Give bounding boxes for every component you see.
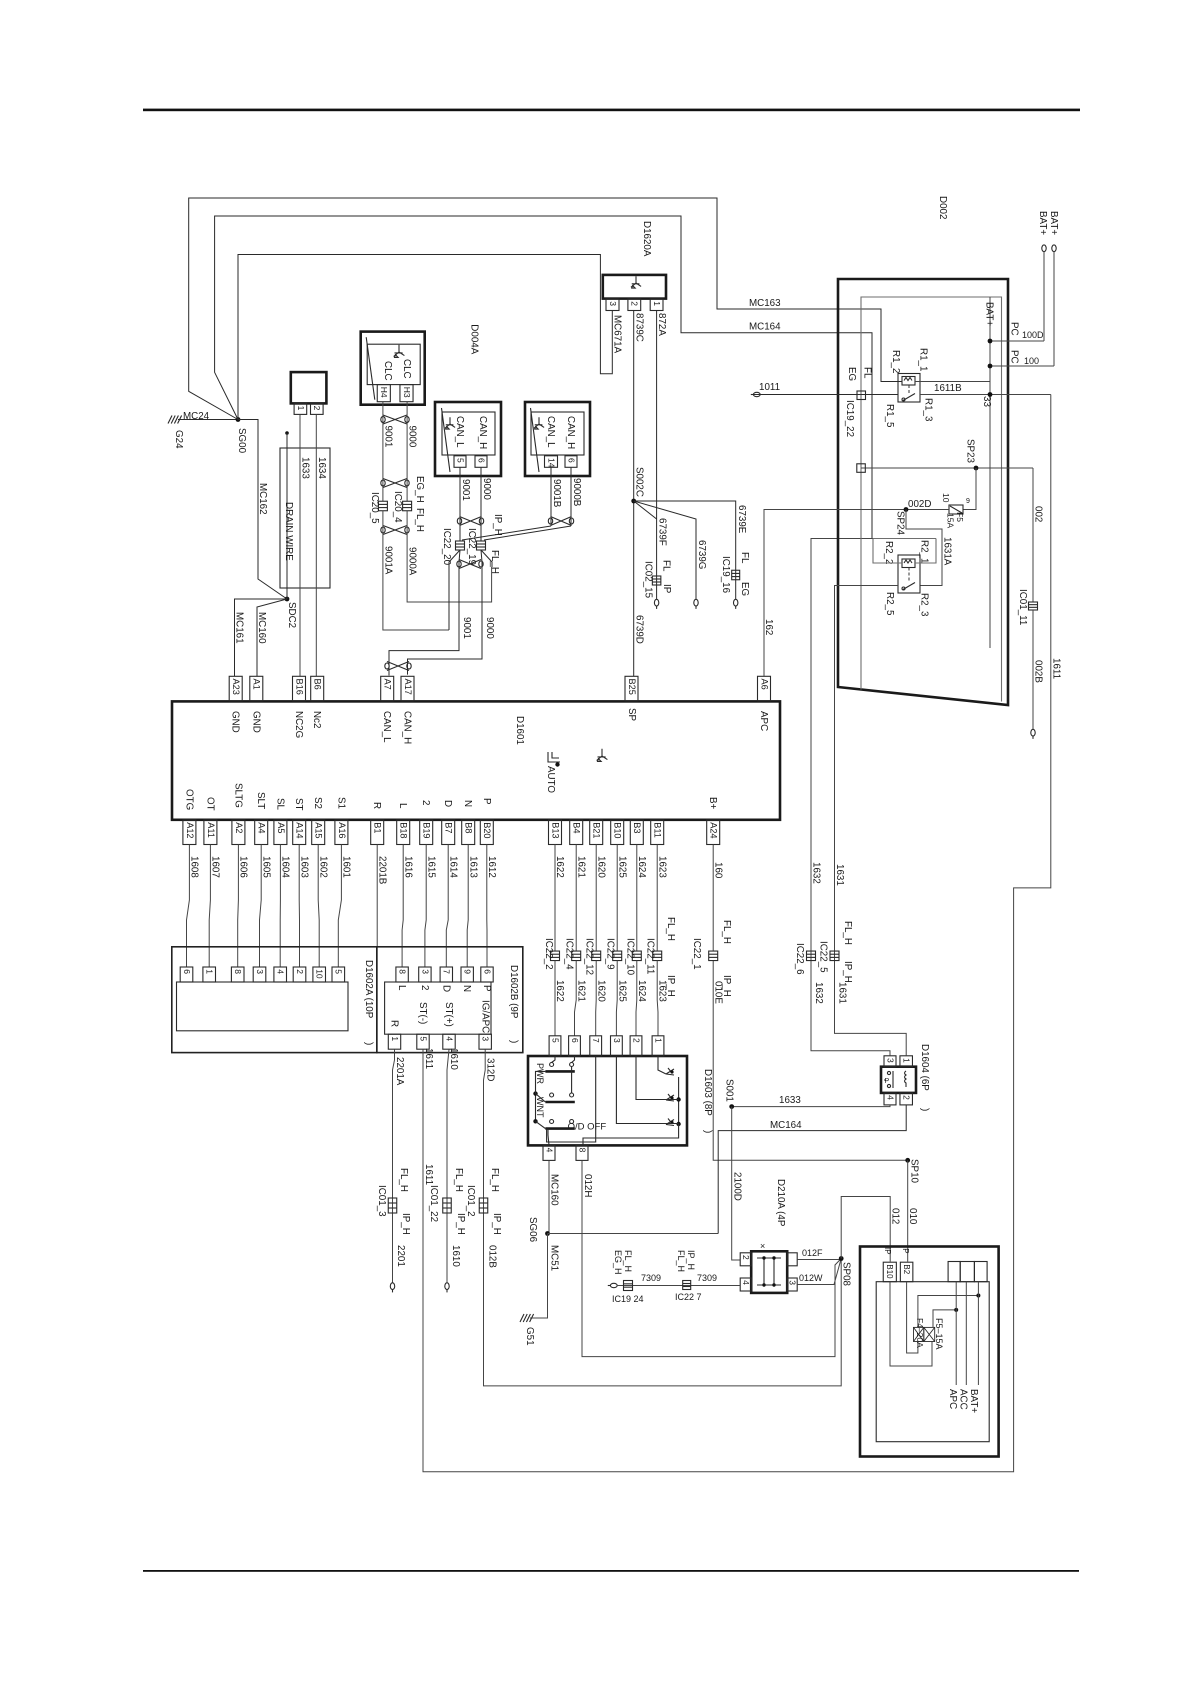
ECU pin A14 bbox=[293, 820, 306, 845]
D1604 internals bbox=[887, 1071, 890, 1074]
wire SG06 to MC164 rail bbox=[548, 1233, 719, 1235]
svg-text:2: 2 bbox=[630, 301, 640, 306]
wire 012H bbox=[582, 1160, 841, 1356]
junction box inner bbox=[876, 1282, 989, 1442]
svg-text:F5: F5 bbox=[955, 512, 965, 522]
inline connector IC01_3 bbox=[388, 1198, 397, 1213]
svg-text:2201B: 2201B bbox=[377, 856, 388, 885]
svg-text:G51: G51 bbox=[524, 1327, 535, 1346]
wire fuse to BAT+ bbox=[918, 1296, 979, 1328]
svg-text:SP10: SP10 bbox=[909, 1159, 920, 1184]
svg-text:IC01_3: IC01_3 bbox=[376, 1185, 387, 1217]
svg-text:IC22_5: IC22_5 bbox=[818, 941, 829, 973]
svg-text:×: × bbox=[760, 1241, 765, 1251]
wire 1633 D1604 pin4 to S001 bbox=[732, 1105, 890, 1107]
svg-text:002D: 002D bbox=[908, 499, 931, 510]
svg-text:R2_2: R2_2 bbox=[883, 541, 894, 564]
wire 002 / 002B bbox=[1032, 468, 1034, 602]
svg-text:6739E: 6739E bbox=[736, 505, 747, 534]
D1603 pin 1 bbox=[652, 1036, 664, 1056]
D1603 pin 2 bbox=[630, 1036, 642, 1056]
svg-text:2: 2 bbox=[902, 1095, 912, 1100]
svg-text:IC19_16: IC19_16 bbox=[720, 556, 731, 594]
svg-text:IC22_12: IC22_12 bbox=[584, 938, 595, 975]
pin B2 bbox=[900, 1262, 913, 1282]
D1602A pin 6 bbox=[180, 967, 193, 982]
svg-text:EG: EG bbox=[739, 582, 750, 596]
ECU pin B11 bbox=[651, 820, 664, 845]
pin 14 bbox=[545, 456, 558, 468]
svg-text:012W: 012W bbox=[799, 1273, 823, 1283]
svg-text:012: 012 bbox=[890, 1208, 901, 1224]
relay box D002 bbox=[838, 279, 1008, 705]
D1603 pin 6 bbox=[569, 1036, 581, 1056]
inline connector IC22_19 bbox=[477, 541, 486, 550]
svg-text:): ) bbox=[919, 1108, 930, 1111]
svg-text:MC160: MC160 bbox=[549, 1174, 560, 1206]
svg-text:1011: 1011 bbox=[759, 382, 780, 393]
svg-text:MC24: MC24 bbox=[183, 411, 210, 422]
svg-text:A23: A23 bbox=[231, 679, 241, 695]
ECU pin B25 bbox=[625, 676, 638, 701]
svg-text:D: D bbox=[442, 800, 453, 807]
wire 1605 bbox=[260, 845, 262, 968]
svg-text:D002: D002 bbox=[937, 196, 948, 219]
svg-text:DRAIN WIRE: DRAIN WIRE bbox=[283, 502, 294, 561]
page top rule bbox=[143, 109, 1080, 112]
svg-text:2: 2 bbox=[741, 1255, 751, 1260]
svg-text:GND: GND bbox=[250, 711, 261, 733]
svg-text:MC162: MC162 bbox=[257, 483, 268, 515]
svg-text:S2: S2 bbox=[312, 797, 323, 809]
svg-text:1611B: 1611B bbox=[934, 383, 962, 394]
pin H3 bbox=[400, 385, 413, 402]
D002 inner feed loop bbox=[861, 297, 1002, 702]
svg-text:1620: 1620 bbox=[595, 856, 606, 878]
svg-text:2: 2 bbox=[631, 1038, 641, 1043]
svg-text:FL_H: FL_H bbox=[676, 1250, 686, 1272]
wire 1621 lower bbox=[575, 961, 577, 1036]
svg-text:9: 9 bbox=[463, 969, 473, 974]
svg-text:B20: B20 bbox=[482, 822, 492, 838]
svg-text:FL_H: FL_H bbox=[623, 1250, 633, 1272]
svg-text:OTG: OTG bbox=[183, 789, 194, 810]
indicator symbols right bbox=[666, 1068, 674, 1075]
switch internal wiring bbox=[536, 1056, 596, 1145]
drain wire box bbox=[280, 448, 330, 588]
svg-text:1625: 1625 bbox=[616, 856, 627, 878]
wire 1623 lower bbox=[656, 961, 659, 1036]
connector CAN box 1 bbox=[435, 402, 501, 476]
wire 6739G branch bbox=[634, 501, 696, 600]
D1604 pin 3 bbox=[884, 1056, 896, 1067]
svg-text:IC22_11: IC22_11 bbox=[645, 938, 656, 974]
connector D1602A box bbox=[172, 947, 377, 1053]
svg-text:15A: 15A bbox=[946, 513, 956, 528]
svg-text:FL_H: FL_H bbox=[453, 1168, 464, 1192]
svg-text:1624: 1624 bbox=[636, 980, 647, 1002]
inline connector IC19_24 bbox=[624, 1281, 633, 1291]
D1602B pin 9 bbox=[461, 967, 473, 982]
svg-text:CAN_L: CAN_L bbox=[454, 416, 465, 448]
svg-text:9001: 9001 bbox=[461, 617, 472, 639]
BAT+ terminal 2 bbox=[1052, 245, 1056, 252]
fuse holder cells bbox=[948, 1262, 960, 1282]
wire MC162 SG00 to SDC2 bbox=[238, 420, 287, 600]
svg-text:9000B: 9000B bbox=[571, 478, 582, 507]
svg-text:9000: 9000 bbox=[484, 617, 495, 639]
svg-text:IC19_22: IC19_22 bbox=[844, 400, 855, 437]
twisted pair symbol bbox=[459, 560, 481, 569]
svg-text:D1601: D1601 bbox=[514, 716, 525, 745]
svg-text:1604: 1604 bbox=[280, 856, 291, 878]
svg-text:MC164: MC164 bbox=[749, 322, 781, 333]
svg-text:A5: A5 bbox=[276, 822, 286, 833]
svg-text:3: 3 bbox=[788, 1280, 798, 1285]
ECU pin A1 bbox=[250, 676, 263, 701]
svg-text:NC2G: NC2G bbox=[293, 711, 304, 738]
svg-text:CAN_L: CAN_L bbox=[545, 416, 556, 448]
svg-text:G24: G24 bbox=[173, 430, 184, 449]
D210A pin 3 bbox=[787, 1278, 797, 1291]
svg-text:N: N bbox=[461, 985, 472, 992]
D1604 pin 2 bbox=[900, 1093, 913, 1105]
connector D1602B box bbox=[377, 947, 523, 1053]
svg-text:IC20_5: IC20_5 bbox=[369, 492, 380, 524]
svg-text:D004A: D004A bbox=[469, 324, 480, 354]
svg-text:A12: A12 bbox=[185, 822, 195, 838]
svg-text:3: 3 bbox=[255, 969, 265, 974]
wire R1 coil to BAT+ bbox=[915, 381, 990, 383]
svg-text:1611: 1611 bbox=[423, 1164, 434, 1185]
wire 1621 upper bbox=[575, 845, 577, 952]
wire MC51 to ground bbox=[530, 1234, 548, 1319]
svg-text:1603: 1603 bbox=[298, 856, 309, 878]
svg-text:162: 162 bbox=[763, 619, 774, 635]
svg-text:1631: 1631 bbox=[837, 982, 848, 1004]
svg-text:D: D bbox=[440, 985, 451, 992]
svg-text:O/D OFF: O/D OFF bbox=[568, 1122, 607, 1133]
ECU pin A2 bbox=[232, 820, 245, 845]
twisted pair symbol bbox=[551, 517, 572, 526]
svg-text:R: R bbox=[371, 802, 382, 809]
ECU pin A17 bbox=[401, 676, 414, 701]
wire 9000A bbox=[407, 511, 492, 602]
node SP10 bbox=[905, 1158, 910, 1163]
svg-text:6739F: 6739F bbox=[657, 518, 668, 546]
wire BAT+ bbox=[977, 1282, 979, 1385]
D1603 pin 7 bbox=[590, 1036, 602, 1056]
jumper pair to IC22 connectors bbox=[462, 526, 571, 540]
pin 5 bbox=[454, 456, 466, 468]
inline connector IC22_1 bbox=[709, 951, 718, 961]
svg-text:B2: B2 bbox=[902, 1264, 911, 1274]
svg-text:1622: 1622 bbox=[554, 856, 565, 878]
inline connector IC22_9 bbox=[613, 951, 622, 961]
D210A pin 4 bbox=[740, 1278, 751, 1291]
switch left rail bbox=[535, 1094, 537, 1122]
D1602B pin 1 bottom bbox=[388, 1034, 400, 1049]
svg-text:A6: A6 bbox=[759, 679, 769, 690]
connector D004A CLC box bbox=[361, 332, 425, 405]
relay R2 bbox=[898, 555, 920, 593]
svg-text:IP_H: IP_H bbox=[491, 1213, 502, 1235]
svg-text:B25: B25 bbox=[627, 679, 637, 695]
svg-text:FL: FL bbox=[862, 367, 873, 379]
svg-text:BAT+: BAT+ bbox=[1048, 211, 1059, 235]
svg-text:SDC2: SDC2 bbox=[286, 602, 297, 628]
svg-text:D1602A (10P: D1602A (10P bbox=[363, 960, 374, 1019]
svg-text:S002C: S002C bbox=[634, 467, 645, 497]
wire 1614 bbox=[446, 845, 448, 968]
svg-text:6: 6 bbox=[482, 969, 492, 974]
svg-text:GND: GND bbox=[230, 711, 241, 733]
svg-text:A16: A16 bbox=[337, 822, 347, 838]
wire 6739E branch bbox=[634, 501, 736, 600]
svg-text:ST(+): ST(+) bbox=[443, 1002, 454, 1027]
svg-text:B18: B18 bbox=[399, 822, 409, 838]
wire MC160 SDC2 to A1 bbox=[257, 599, 287, 676]
svg-text:FL_H: FL_H bbox=[489, 1168, 500, 1192]
svg-text:IP_H: IP_H bbox=[455, 1213, 466, 1235]
wire 9000 from CAN1 pin6 bbox=[480, 467, 482, 541]
wire loop C (SG00 to D1620A pin3) bbox=[238, 255, 612, 420]
D1602B pin 3 bbox=[419, 967, 431, 982]
D1602B pin 4 bottom bbox=[443, 1034, 455, 1049]
svg-text:D210A (4P: D210A (4P bbox=[775, 1179, 786, 1227]
D1602A pin 5 bbox=[332, 967, 345, 982]
svg-text:7: 7 bbox=[442, 969, 452, 974]
wire 1631 R2 to D1604 pin1 bbox=[835, 586, 907, 1056]
svg-text:9: 9 bbox=[966, 498, 970, 505]
svg-text:IP: IP bbox=[661, 584, 672, 594]
svg-text:IP_H: IP_H bbox=[842, 961, 853, 983]
svg-text:B19: B19 bbox=[422, 822, 432, 838]
pin 6 bbox=[565, 456, 577, 468]
wire MC24 to SG00 bbox=[178, 419, 238, 421]
svg-text:S001: S001 bbox=[724, 1079, 735, 1102]
svg-text:9001A: 9001A bbox=[383, 546, 394, 575]
svg-text:9000A: 9000A bbox=[407, 547, 418, 576]
svg-text:1615: 1615 bbox=[425, 856, 436, 878]
pin 2 bbox=[628, 299, 641, 311]
wire 1611 long loop bbox=[423, 395, 1051, 1472]
svg-text:1621: 1621 bbox=[575, 980, 586, 1002]
inline connector IC22_10 bbox=[632, 951, 641, 961]
twisted pair symbol bbox=[460, 517, 482, 526]
svg-text:FL: FL bbox=[661, 560, 672, 572]
svg-text:1634: 1634 bbox=[316, 457, 327, 479]
wire SP23 to fuse F5 bbox=[963, 468, 976, 510]
svg-text:012B: 012B bbox=[487, 1245, 498, 1268]
svg-text:6739G: 6739G bbox=[696, 540, 707, 569]
svg-text:1616: 1616 bbox=[402, 856, 413, 878]
svg-text:1623: 1623 bbox=[656, 856, 667, 878]
wire 9000 from H3 bbox=[406, 402, 408, 502]
svg-text:010E: 010E bbox=[713, 981, 724, 1004]
wire 012 SP08 to B10 bbox=[841, 1197, 890, 1262]
inline connector IC22_2 bbox=[551, 951, 560, 961]
svg-text:2: 2 bbox=[295, 969, 305, 974]
pin H4 bbox=[377, 385, 390, 402]
svg-text:MC161: MC161 bbox=[234, 612, 245, 644]
svg-text:MC164: MC164 bbox=[770, 1120, 802, 1131]
svg-text:9001: 9001 bbox=[460, 479, 471, 501]
svg-text:SG00: SG00 bbox=[236, 428, 247, 454]
switch O/D OFF bbox=[550, 1120, 554, 1124]
svg-text:B13: B13 bbox=[550, 822, 560, 838]
wire 9001B from CAN2 pin14 bbox=[550, 467, 552, 526]
svg-text:IC22_10: IC22_10 bbox=[625, 938, 636, 976]
page bottom rule bbox=[143, 1570, 1079, 1572]
inline connector IC01_11 bbox=[1029, 602, 1038, 610]
svg-text:3: 3 bbox=[612, 1038, 622, 1043]
wire 2100D S001 to D210A pin2 bbox=[732, 1107, 740, 1260]
D1602A pin 8 bbox=[231, 967, 244, 982]
svg-text:9000: 9000 bbox=[407, 426, 418, 448]
inline connector IC22_7 bbox=[683, 1281, 691, 1290]
svg-text:1633: 1633 bbox=[300, 457, 311, 479]
wire 1603 bbox=[298, 845, 300, 968]
svg-text:PC: PC bbox=[1009, 322, 1020, 336]
D210A internal bus bbox=[757, 1258, 781, 1285]
svg-text:IC01_11: IC01_11 bbox=[1017, 589, 1028, 625]
svg-text:14: 14 bbox=[546, 458, 556, 468]
svg-text:100: 100 bbox=[1024, 356, 1039, 366]
wire 9001 lower to A7 bbox=[389, 550, 460, 676]
svg-text:1611: 1611 bbox=[1051, 658, 1062, 679]
twisted pair symbol bbox=[383, 526, 407, 535]
svg-text:9001B: 9001B bbox=[551, 479, 562, 508]
ECU pin A4 bbox=[255, 820, 268, 845]
ECU pin B21 bbox=[590, 820, 603, 845]
ECU pin B19 bbox=[420, 820, 433, 845]
D1602B pin 8 bbox=[396, 967, 408, 982]
svg-text:B6: B6 bbox=[313, 679, 323, 690]
svg-text:B16: B16 bbox=[294, 679, 304, 695]
ECU pin A7 bbox=[381, 676, 394, 701]
wire 1610 bbox=[447, 1049, 449, 1283]
svg-text:APC: APC bbox=[758, 711, 769, 731]
svg-text:8739C: 8739C bbox=[634, 313, 645, 342]
svg-text:CAN_H: CAN_H bbox=[402, 711, 413, 744]
svg-text:1: 1 bbox=[652, 301, 662, 306]
wire 012F bbox=[797, 1259, 841, 1261]
svg-text:012H: 012H bbox=[582, 1174, 593, 1197]
inline connector IC20_4 bbox=[403, 501, 412, 511]
wire 9000B from CAN2 pin6 bbox=[570, 467, 572, 526]
ECU pin A11 bbox=[204, 820, 217, 845]
node SP08 bbox=[839, 1256, 844, 1261]
svg-text:MC671A: MC671A bbox=[612, 315, 623, 354]
wire 9001 from CAN1 pin5 bbox=[459, 467, 461, 541]
twisted pair symbol bbox=[387, 662, 409, 671]
inline connector IC20_5 bbox=[378, 501, 387, 511]
svg-text:1: 1 bbox=[902, 1058, 912, 1063]
svg-text:FL_H: FL_H bbox=[414, 508, 425, 532]
connector D210A bbox=[751, 1251, 787, 1293]
wire 872A / 6739F bbox=[656, 311, 658, 600]
svg-text:8: 8 bbox=[398, 969, 408, 974]
wire 1613 bbox=[467, 845, 468, 968]
svg-text:IC19 24: IC19 24 bbox=[612, 1294, 644, 1304]
D1602A pin 10 bbox=[313, 967, 326, 982]
svg-text:A15: A15 bbox=[314, 822, 324, 838]
svg-text:BAT+: BAT+ bbox=[968, 1389, 979, 1413]
svg-text:1622: 1622 bbox=[554, 980, 565, 1002]
svg-text:R1_3: R1_3 bbox=[923, 398, 934, 422]
svg-text:2201A: 2201A bbox=[394, 1057, 405, 1086]
wire R2_5 out bbox=[835, 585, 899, 587]
ECU pin B6 bbox=[311, 676, 324, 701]
twisted pair symbol bbox=[383, 479, 407, 488]
svg-text:P: P bbox=[481, 985, 492, 992]
svg-text:872A: 872A bbox=[656, 313, 667, 336]
svg-text:IP_H: IP_H bbox=[400, 1213, 411, 1235]
svg-text:1608: 1608 bbox=[189, 856, 200, 878]
wire 1620 lower bbox=[595, 961, 598, 1036]
svg-text:IC22_4: IC22_4 bbox=[564, 938, 575, 970]
svg-text:BAT+: BAT+ bbox=[1037, 211, 1048, 235]
svg-text:A4: A4 bbox=[257, 822, 267, 833]
D1604 pin 1 bbox=[900, 1056, 913, 1067]
wire 312D / 012B to SP08 bbox=[484, 1049, 842, 1386]
wire 1601 bbox=[338, 845, 341, 968]
connector D1604 bbox=[881, 1067, 916, 1093]
svg-text:A2: A2 bbox=[234, 822, 244, 833]
svg-text:ST: ST bbox=[293, 798, 304, 811]
svg-text:B10: B10 bbox=[885, 1264, 894, 1279]
ECU pin B20 bbox=[480, 820, 493, 845]
svg-text:R1_1: R1_1 bbox=[918, 348, 929, 371]
svg-text:100D: 100D bbox=[1022, 330, 1044, 340]
svg-text:5: 5 bbox=[334, 969, 344, 974]
wire MC164 lower bbox=[718, 1105, 906, 1234]
wire 1625 lower bbox=[615, 961, 618, 1036]
svg-text:MC160: MC160 bbox=[256, 612, 267, 644]
wire BAT+ internal bbox=[989, 297, 991, 648]
ECU pin B4 bbox=[570, 820, 583, 845]
wire 9001 from H4 bbox=[382, 402, 384, 502]
svg-text:160: 160 bbox=[713, 862, 724, 879]
svg-text:6: 6 bbox=[566, 458, 576, 463]
wire B2 to fuse F4 bbox=[907, 1282, 918, 1353]
svg-text:8: 8 bbox=[577, 1148, 587, 1153]
svg-text:6: 6 bbox=[182, 969, 192, 974]
svg-text:1601: 1601 bbox=[341, 856, 352, 878]
inline connector IC02_15 bbox=[652, 576, 661, 585]
node S001 bbox=[729, 1104, 734, 1109]
svg-text:3: 3 bbox=[420, 969, 430, 974]
wire 1608 bbox=[187, 845, 190, 968]
D1602B pin 3 bottom bbox=[479, 1034, 491, 1049]
svg-text:CAN_H: CAN_H bbox=[565, 416, 576, 449]
wire 6739F diagonal bbox=[634, 501, 657, 519]
svg-text:312D: 312D bbox=[485, 1058, 496, 1081]
svg-text:IC01_22: IC01_22 bbox=[428, 1185, 439, 1222]
svg-text:A17: A17 bbox=[403, 679, 413, 695]
wire 1623 upper bbox=[656, 845, 658, 952]
svg-text:1631: 1631 bbox=[834, 864, 845, 886]
svg-text:2100D: 2100D bbox=[732, 1172, 743, 1201]
wire 002D to A6 bbox=[764, 510, 949, 677]
svg-text:B4: B4 bbox=[572, 822, 582, 833]
svg-text:2201: 2201 bbox=[395, 1245, 406, 1267]
wire 1624 upper bbox=[636, 845, 638, 952]
svg-text:FL: FL bbox=[739, 552, 750, 564]
svg-text:A14: A14 bbox=[295, 822, 305, 838]
inline connector IC22_20 bbox=[456, 541, 465, 550]
